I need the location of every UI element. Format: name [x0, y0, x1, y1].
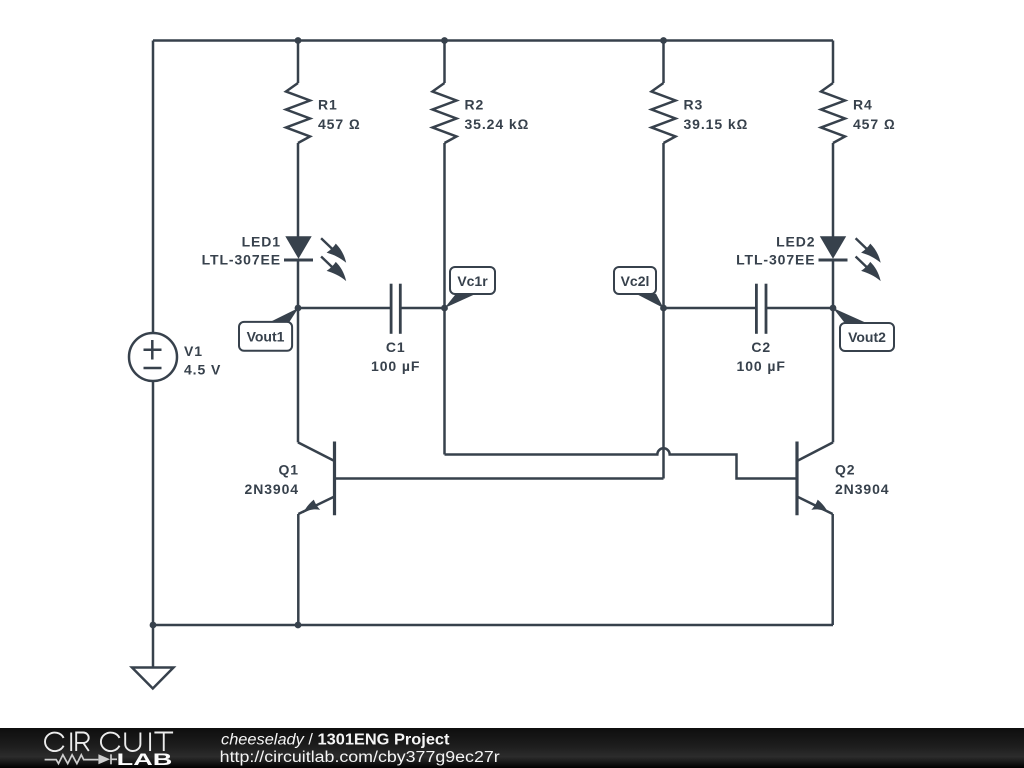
svg-text:C2: C2 — [751, 339, 771, 355]
svg-text:V1: V1 — [184, 343, 203, 359]
svg-text:35.24 kΩ: 35.24 kΩ — [465, 116, 530, 132]
svg-text:R2: R2 — [465, 97, 485, 113]
svg-text:Q1: Q1 — [279, 462, 299, 478]
svg-text:R4: R4 — [853, 97, 873, 113]
svg-text:C1: C1 — [386, 339, 406, 355]
svg-text:100 µF: 100 µF — [371, 358, 420, 374]
svg-text:LTL-307EE: LTL-307EE — [736, 252, 815, 268]
svg-text:Vout2: Vout2 — [848, 329, 886, 345]
svg-text:100 µF: 100 µF — [737, 358, 786, 374]
svg-text:LTL-307EE: LTL-307EE — [202, 252, 281, 268]
svg-text:Vc2l: Vc2l — [621, 273, 650, 289]
svg-text:LAB: LAB — [117, 751, 173, 768]
svg-text:http://circuitlab.com/cby377g9: http://circuitlab.com/cby377g9ec27r — [220, 749, 500, 766]
svg-text:LED1: LED1 — [242, 234, 281, 250]
svg-text:2N3904: 2N3904 — [245, 481, 299, 497]
svg-text:39.15 kΩ: 39.15 kΩ — [684, 116, 749, 132]
svg-text:457 Ω: 457 Ω — [853, 116, 896, 132]
svg-text:Vout1: Vout1 — [247, 329, 285, 345]
svg-text:R1: R1 — [318, 97, 338, 113]
svg-text:cheeselady / 1301ENG Project: cheeselady / 1301ENG Project — [221, 731, 450, 748]
svg-text:4.5 V: 4.5 V — [184, 362, 221, 378]
svg-text:LED2: LED2 — [776, 234, 815, 250]
svg-text:2N3904: 2N3904 — [835, 481, 889, 497]
svg-text:457 Ω: 457 Ω — [318, 116, 361, 132]
svg-text:R3: R3 — [684, 97, 704, 113]
svg-text:Q2: Q2 — [835, 462, 855, 478]
svg-text:Vc1r: Vc1r — [457, 273, 488, 289]
